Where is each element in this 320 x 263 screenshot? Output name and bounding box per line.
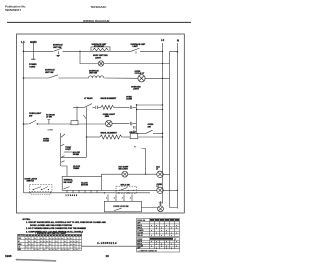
svg-text:x: x [32, 244, 33, 246]
terminal bars [159, 201, 163, 203]
svg-text:x: x [71, 241, 72, 243]
table1 row lines [137, 220, 180, 222]
resistor RF zigzag [93, 48, 109, 51]
wire lock light to bus [163, 189, 177, 191]
svg-text:UNIT RR: UNIT RR [89, 73, 98, 75]
svg-text:L2: L2 [161, 38, 165, 42]
svg-text:BROIL ELEMENT: BROIL ELEMENT [101, 133, 118, 135]
svg-text:x: x [44, 249, 45, 251]
switch LT rear [85, 104, 93, 108]
svg-text:x = SWITCH CONTACTS: x = SWITCH CONTACTS [138, 250, 158, 253]
svg-text:x: x [74, 247, 75, 249]
chart header smears [26, 235, 28, 236]
wire row5 right [112, 123, 129, 125]
junction dot row1 L2 [162, 51, 163, 52]
svg-text:x: x [166, 233, 167, 235]
svg-text:DOOR LOCKED AND UNLOCKED POSIT: DOOR LOCKED AND UNLOCKED POSITION [30, 224, 72, 227]
svg-text:x: x [171, 248, 172, 250]
svg-text:1: 1 [106, 198, 107, 200]
switch inside clock box [64, 187, 70, 189]
svg-text:2. DO IT ORDERS REGULATE CONNE: 2. DO IT ORDERS REGULATE CONNECTED FOR T… [26, 227, 87, 230]
svg-text:SW CONT: SW CONT [64, 182, 74, 184]
svg-text:x: x [41, 241, 42, 243]
switch RR surface unit [49, 75, 58, 78]
svg-text:x: x [156, 243, 157, 245]
svg-text:1996: 1996 [5, 254, 12, 258]
wire L2 bus [162, 43, 164, 204]
lamp lock light [157, 187, 163, 193]
svg-text:1. CIRCUIT SHOWN WITH ALL CONT: 1. CIRCUIT SHOWN WITH ALL CONTROLS OUT T… [26, 221, 106, 224]
svg-text:x: x [29, 244, 30, 246]
svg-text:IND LIGHT: IND LIGHT [119, 169, 129, 171]
wire to zigzag [98, 106, 101, 108]
svg-text:OVEN: OVEN [48, 129, 54, 131]
wire row5 left [24, 123, 29, 125]
junction dot row1 drop [79, 51, 80, 52]
resistor broil element [100, 135, 122, 139]
wire L1 bus [23, 43, 25, 193]
junction dots mid upper [136, 104, 137, 105]
svg-text:x: x [166, 225, 167, 227]
wire drop to lamp row [80, 51, 98, 63]
chart column lines [27, 234, 29, 250]
wire row4 right [114, 106, 130, 108]
svg-text:x: x [151, 241, 152, 243]
wire row5 to bus [133, 123, 137, 125]
ground strap power cord [31, 58, 35, 60]
svg-text:UNIT SW: UNIT SW [45, 72, 54, 74]
wire mid to L2 upper [136, 104, 162, 106]
svg-text:RELAY: RELAY [130, 131, 137, 134]
chart title row [36, 232, 82, 234]
svg-text:x: x [50, 244, 51, 246]
switch on drop vertical [83, 115, 86, 119]
svg-text:x: x [151, 225, 152, 227]
svg-text:x: x [56, 249, 57, 251]
wire thermostat drop [60, 133, 62, 166]
svg-text:x: x [176, 228, 177, 230]
power cord label [29, 64, 37, 69]
wire to clock lamp [128, 173, 157, 175]
svg-text:LT REAR: LT REAR [84, 97, 93, 100]
wire clock light to bus [163, 173, 169, 175]
svg-text:x: x [171, 235, 172, 237]
wire row6 right [138, 136, 163, 138]
chart label column line [24, 234, 26, 250]
table1 outer [137, 218, 180, 236]
svg-text:x: x [50, 249, 51, 251]
svg-text:x: x [44, 238, 45, 240]
svg-text:DOOR LOCK SW: DOOR LOCK SW [114, 206, 129, 208]
lamp clock light [157, 171, 163, 177]
svg-text:x: x [171, 228, 172, 230]
svg-text:x: x [156, 228, 157, 230]
pin labels lock box [106, 197, 131, 200]
switch limiter [131, 48, 140, 51]
wire stub from clock box corner [102, 174, 122, 176]
header rule [7, 21, 191, 23]
lamp hot surface [122, 171, 128, 177]
svg-text:x: x [53, 249, 54, 251]
svg-text:TEF364ASC: TEF364ASC [91, 5, 107, 9]
svg-text:3: 3 [122, 198, 123, 200]
svg-text:x: x [47, 247, 48, 249]
switch latch [34, 187, 42, 190]
wire interlock row [102, 189, 157, 191]
junction dot broil feed [86, 136, 87, 137]
wire row4 left drop [76, 107, 78, 120]
svg-text:SW: SW [29, 115, 32, 117]
svg-text:10: 10 [106, 254, 110, 258]
label thermal sw [64, 179, 89, 187]
bottom smear [16, 259, 56, 261]
junction dot hot surface [145, 174, 146, 175]
svg-text:x: x [74, 244, 75, 246]
svg-text:x: x [161, 235, 162, 237]
svg-text:x: x [151, 246, 152, 248]
wire row4 left [73, 106, 85, 108]
svg-text:TSTAT: TSTAT [43, 140, 50, 143]
terminal tick row5 [48, 120, 50, 124]
switch oven selector [146, 130, 153, 133]
svg-text:x: x [68, 249, 69, 251]
svg-text:x: x [59, 238, 60, 240]
wire mid to L2 lower [136, 109, 162, 111]
resistor bake element [101, 105, 114, 109]
junction dot N jog [177, 51, 179, 53]
svg-text:x: x [161, 230, 162, 232]
junction dots mid lower [136, 109, 137, 110]
latch box dashed [29, 185, 52, 192]
table2 bottom strip [137, 249, 180, 252]
lamp oven indicator [138, 75, 145, 82]
resistor RF surface unit box [91, 47, 110, 51]
svg-text:1 2 3 4 5 6: 1 2 3 4 5 6 [66, 194, 78, 197]
lamp RF indicator [98, 61, 103, 66]
svg-text:CONT: CONT [65, 149, 71, 151]
table1 header cells [150, 219, 179, 221]
svg-text:x: x [68, 238, 69, 240]
svg-text:BAKE ELEMENT: BAKE ELEMENT [101, 97, 118, 100]
interlock contact dots [119, 190, 134, 191]
table1 column lines [149, 218, 151, 236]
wire row3 to N [145, 77, 170, 79]
wire row1 mid [63, 50, 92, 52]
wire tstat output [61, 156, 87, 158]
svg-text:x: x [50, 238, 51, 240]
svg-text:x: x [32, 247, 33, 249]
wire row3 to lamp [104, 77, 138, 79]
svg-text:x: x [161, 246, 162, 248]
switch RF surface unit [54, 48, 63, 51]
svg-text:NOTES:: NOTES: [23, 219, 31, 221]
svg-text:LIGHT: LIGHT [95, 57, 102, 59]
table2 row lines [137, 239, 180, 241]
svg-text:RT FRONT: RT FRONT [94, 46, 105, 48]
switch bake [29, 120, 36, 124]
svg-text:SW: SW [148, 126, 151, 128]
svg-text:LT SW: LT SW [46, 117, 52, 119]
footer rule [82, 245, 136, 247]
contact tick 1 [61, 144, 64, 146]
wire N bus [176, 43, 178, 209]
svg-text:x: x [26, 247, 27, 249]
svg-text:x: x [156, 233, 157, 235]
svg-text:x: x [53, 238, 54, 240]
svg-text:LIGHT: LIGHT [133, 89, 140, 91]
wire row4 to bus [133, 106, 137, 108]
junction dot d [118, 192, 119, 193]
svg-text:x: x [29, 238, 30, 240]
junction dot b [50, 192, 51, 193]
door lock box [104, 201, 141, 212]
wire row1 left [24, 50, 54, 52]
svg-text:x: x [35, 238, 36, 240]
pin stubs below clock box [66, 190, 68, 193]
switch thermostat top [61, 134, 65, 138]
switch interlock [120, 188, 128, 191]
svg-text:x: x [77, 241, 78, 243]
svg-text:x: x [74, 249, 75, 251]
wire lock box to lamp [141, 207, 157, 209]
latch contact dots [33, 189, 49, 190]
table2 outer [137, 237, 180, 248]
lamp oven light [106, 120, 113, 127]
svg-text:x: x [44, 241, 45, 243]
hash marks below latch [31, 194, 50, 196]
svg-text:OFF: OFF [18, 238, 21, 240]
svg-text:CYCLE LT: CYCLE LT [135, 73, 145, 75]
junction dot row3 [162, 78, 163, 79]
wire row5 mid [37, 123, 72, 125]
svg-text:x: x [176, 246, 177, 248]
svg-text:CORD: CORD [29, 67, 35, 69]
wire drop to broil [85, 107, 87, 157]
table2 header dark cell [150, 238, 173, 240]
lamp leads [160, 201, 162, 206]
svg-text:x: x [151, 235, 152, 237]
svg-text:x: x [166, 241, 167, 243]
junction dot e [127, 192, 128, 193]
svg-text:x: x [156, 248, 157, 250]
svg-text:OFF: OFF [137, 248, 140, 250]
svg-text:2: 2 [114, 198, 115, 200]
svg-text:x: x [50, 241, 51, 243]
svg-text:L1: L1 [21, 40, 25, 44]
table2 column lines [149, 237, 151, 248]
divider dash [64, 151, 73, 153]
svg-text:x: x [62, 249, 63, 251]
connector ticks row5 [129, 122, 131, 125]
chart row lines [18, 235, 82, 237]
svg-text:CONN: CONN [126, 99, 132, 101]
wire row1 to L2 [140, 50, 163, 52]
svg-text:25W: 25W [105, 116, 109, 118]
svg-text:SWITCH: SWITCH [27, 181, 35, 183]
junction dot L1 row1 [23, 51, 25, 53]
wire row5 to lamp [78, 123, 105, 125]
svg-text:x: x [41, 238, 42, 240]
svg-text:MOTOR: MOTOR [81, 185, 89, 187]
contact tick 2 [61, 156, 65, 158]
interlock box dashed [116, 186, 137, 193]
junction dot lock light N [177, 190, 178, 191]
wire GND stub [32, 43, 34, 60]
fuse block [71, 121, 78, 125]
clock box [62, 176, 101, 190]
svg-text:x: x [47, 241, 48, 243]
svg-text:x: x [56, 238, 57, 240]
wire bottom row [24, 192, 151, 194]
svg-text:N: N [177, 39, 179, 43]
switch limiter pivot tick [135, 51, 137, 53]
svg-text:x: x [71, 238, 72, 240]
switch inside lock box [114, 208, 122, 210]
junction dot L1 row3 [23, 77, 25, 79]
svg-text:x: x [62, 238, 63, 240]
svg-text:LIMIT: LIMIT [133, 46, 139, 48]
wire row6 mid [122, 136, 130, 138]
connector bracket upper [133, 126, 135, 129]
svg-text:5995269017: 5995269017 [5, 8, 21, 12]
svg-text:x: x [171, 243, 172, 245]
junction dot c [104, 192, 105, 193]
svg-text:x: x [77, 249, 78, 251]
svg-text:INTLK SW: INTLK SW [121, 184, 130, 186]
svg-text:GND: GND [30, 40, 38, 44]
svg-text:x: x [74, 241, 75, 243]
connector ticks zigzag [95, 106, 97, 109]
wire thermostat bottom bend [61, 166, 67, 176]
svg-text:x: x [38, 249, 39, 251]
svg-text:DELAY: DELAY [137, 234, 143, 237]
svg-text:x: x [65, 249, 66, 251]
svg-text:x: x [35, 241, 36, 243]
switch pivot stub [58, 51, 60, 54]
wire row6 left [87, 136, 101, 138]
svg-text:x: x [35, 249, 36, 251]
junction dot row4 drop [76, 107, 77, 108]
svg-text:x: x [65, 241, 66, 243]
lamp lock indicator [158, 206, 164, 212]
wire row1 right [110, 50, 131, 52]
schematic frame [17, 34, 185, 213]
relay broil box [130, 134, 138, 139]
wire mid bus [135, 104, 137, 133]
svg-text:SW POS: SW POS [18, 235, 24, 237]
junction dot a [29, 192, 30, 193]
wire row3 left [24, 77, 50, 79]
svg-text:POWER: POWER [29, 64, 37, 66]
svg-text:x: x [56, 241, 57, 243]
junction dot row5 after switch [37, 123, 38, 124]
wire selector [136, 132, 146, 134]
svg-text:UNIT SW: UNIT SW [53, 47, 62, 49]
wire row3 mid [59, 77, 89, 79]
wire lamp to N [104, 63, 170, 65]
wire drops to lock box [107, 195, 109, 202]
svg-text:x: x [41, 244, 42, 246]
svg-text:x: x [65, 244, 66, 246]
chart outer box [18, 234, 82, 250]
svg-text:x: x [26, 238, 27, 240]
connector bracket lower [133, 130, 135, 133]
svg-text:30 MIN: 30 MIN [73, 154, 80, 156]
contact tick 3 [61, 161, 65, 163]
wire selector drop [142, 149, 146, 175]
wire row4 mid2 [93, 106, 96, 108]
svg-text:x: x [176, 233, 177, 235]
svg-text:x: x [166, 248, 167, 250]
wire N jog [170, 52, 178, 208]
svg-text:TIMER: TIMER [73, 168, 80, 170]
svg-text:x: x [71, 244, 72, 246]
junction dot row2 [162, 63, 163, 64]
junction dot L1 row5 [23, 123, 25, 125]
wire selector right [153, 132, 163, 134]
svg-text:x: x [151, 230, 152, 232]
junction dot selector L2 [162, 133, 164, 135]
svg-text:3-16080213: 3-16080213 [97, 241, 117, 245]
svg-text:x: x [176, 241, 177, 243]
coil RR surface unit [89, 76, 104, 78]
connector ticks row4 [129, 106, 131, 109]
junction dot broil L2 [162, 136, 163, 137]
svg-text:x: x [29, 241, 30, 243]
